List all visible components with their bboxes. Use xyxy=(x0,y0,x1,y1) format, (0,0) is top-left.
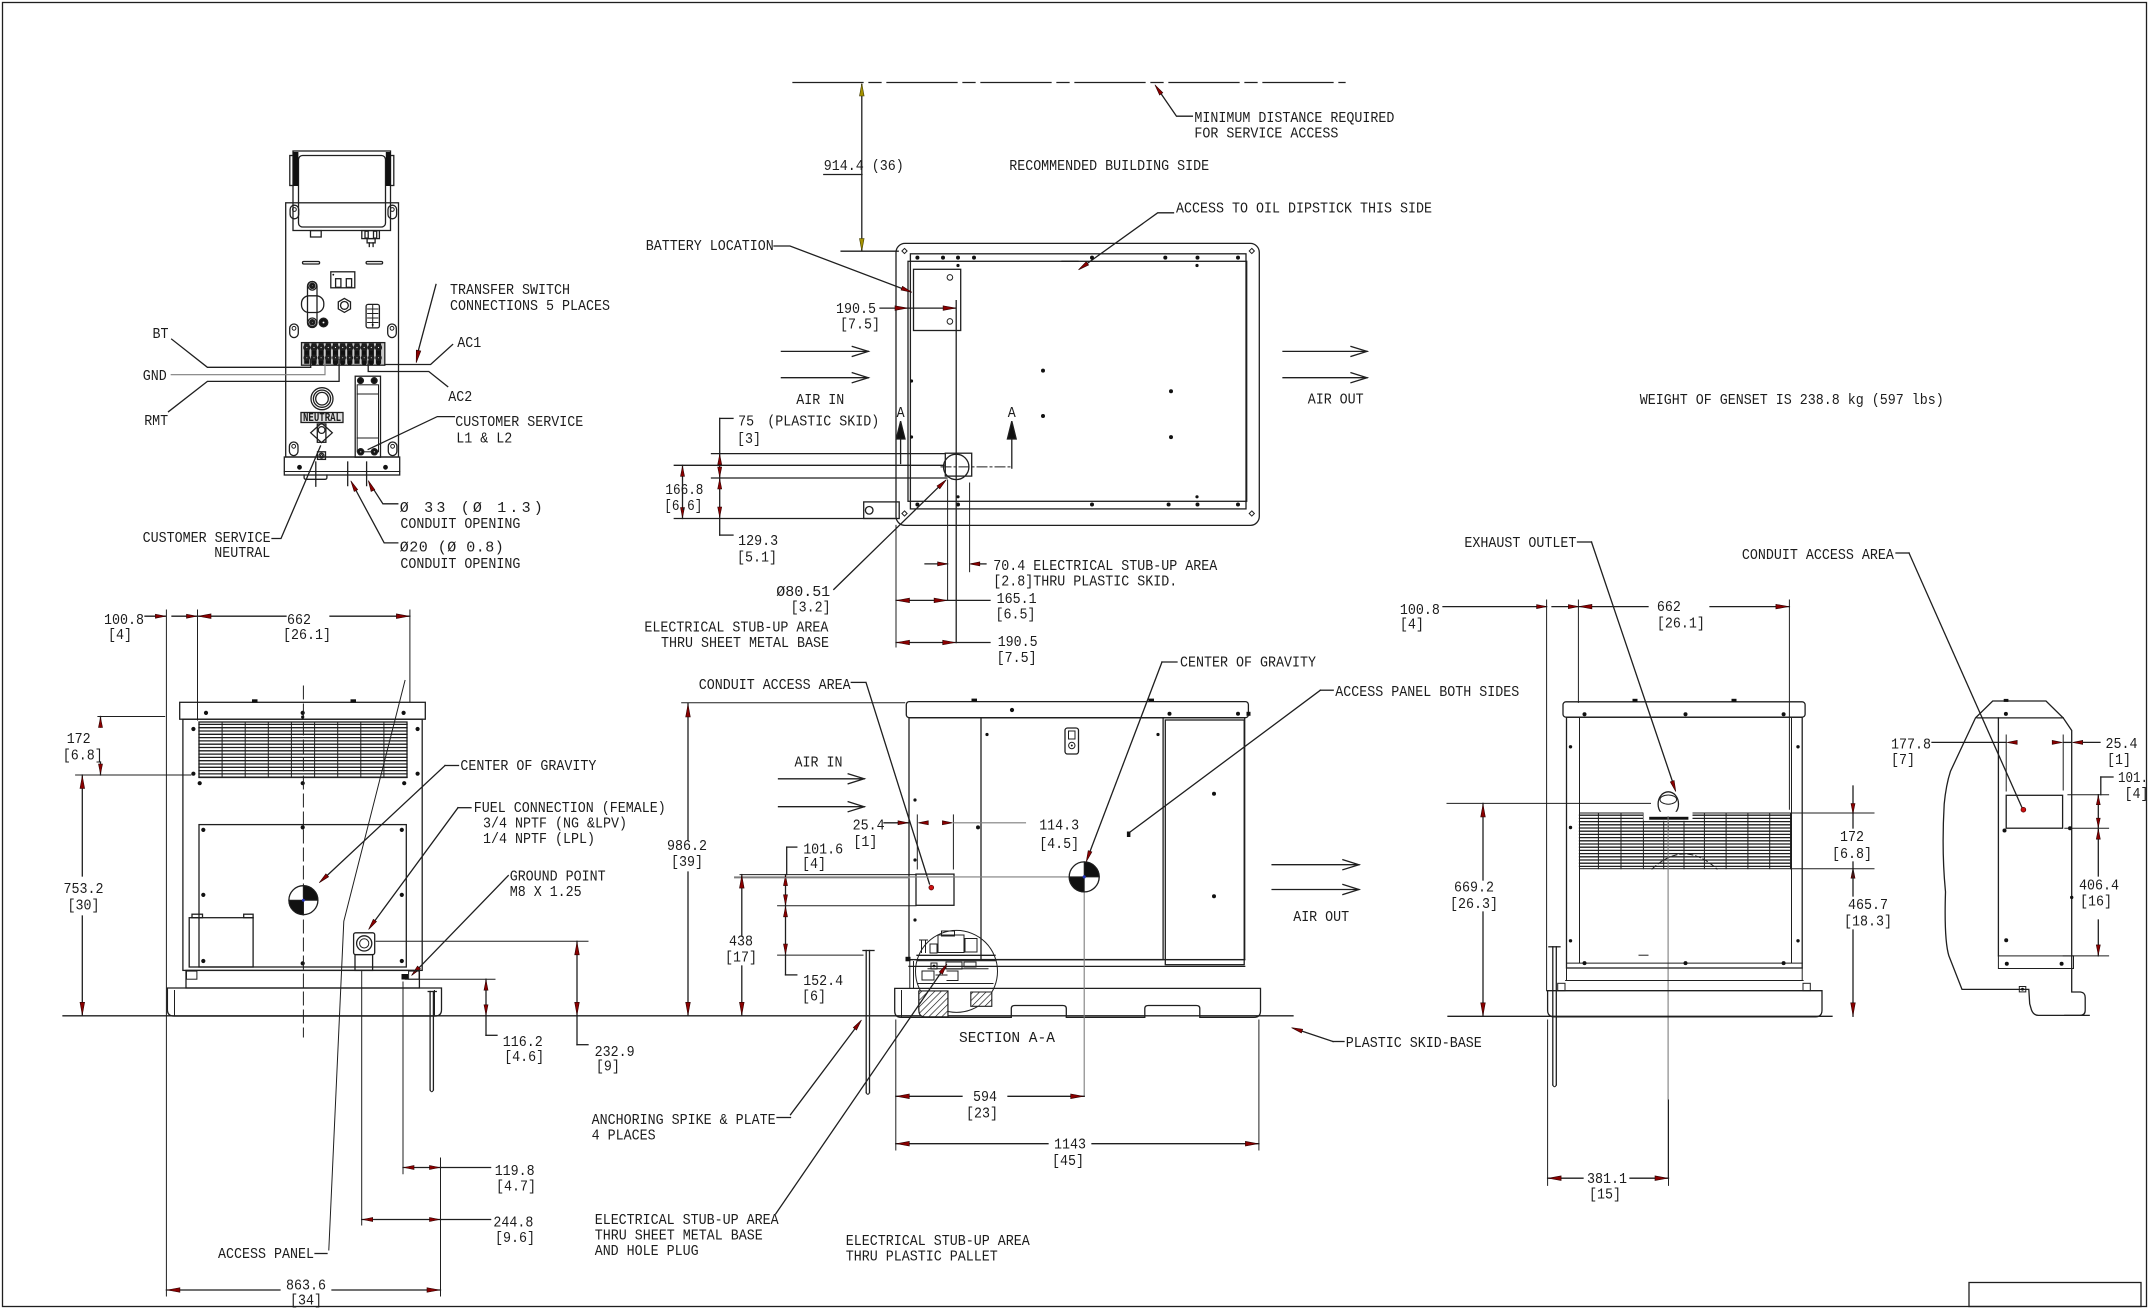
panel flange tab xyxy=(304,475,327,479)
svg-text:[7]: [7] xyxy=(1891,752,1915,769)
control panel: round connector xyxy=(319,318,328,327)
extension line body left (section) xyxy=(895,1020,897,1150)
dimension 152.4 [6] (section) xyxy=(785,906,787,955)
right view: bottom band xyxy=(1567,962,1803,964)
svg-text:AC2: AC2 xyxy=(448,389,472,406)
control panel: D-sub screw top xyxy=(308,282,317,291)
svg-text:119.8: 119.8 xyxy=(495,1163,535,1180)
left view: ground line xyxy=(63,1015,1293,1017)
dimension 1143 [45] xyxy=(896,1143,1048,1145)
left view: dimension 232.9 [9] xyxy=(576,941,578,1016)
svg-text:25.4: 25.4 xyxy=(2106,736,2138,753)
section A-A: plastic skid pallet xyxy=(895,988,1261,1017)
svg-text:172: 172 xyxy=(1840,829,1864,846)
svg-text:70.4 ELECTRICAL STUB-UP AREA: 70.4 ELECTRICAL STUB-UP AREA xyxy=(993,558,1217,575)
dimension 166.8 [6.6] xyxy=(682,465,684,518)
right view: exhaust gap in grille xyxy=(1644,812,1693,821)
svg-text:[4.7]: [4.7] xyxy=(496,1179,536,1196)
profile view: door bottom strip xyxy=(1998,956,2073,969)
right view: anchoring spike xyxy=(1549,946,1560,948)
customer service block L1 L2 xyxy=(355,376,380,457)
neutral lug lower stud xyxy=(318,452,326,460)
svg-text:[4]: [4] xyxy=(2125,786,2149,803)
control panel: hex stud xyxy=(338,298,350,312)
svg-text:THRU SHEET METAL BASE: THRU SHEET METAL BASE xyxy=(661,635,829,652)
left view: dimension 119.8 [4.7] xyxy=(403,1167,441,1169)
right view: ext skid-left xyxy=(1546,600,1548,991)
control panel: fuse holder box xyxy=(331,272,355,288)
svg-text:465.7: 465.7 xyxy=(1848,897,1888,914)
svg-text:[1]: [1] xyxy=(853,834,877,851)
right view: dimension 662 [26.1] xyxy=(1578,606,1648,608)
leader wire GND xyxy=(171,360,325,375)
profile view: screw dots xyxy=(2004,712,2008,716)
svg-text:[2.8]THRU PLASTIC SKID.: [2.8]THRU PLASTIC SKID. xyxy=(993,574,1177,591)
control panel: slot dash right xyxy=(366,262,383,265)
svg-text:1/4 NPTF (LPL): 1/4 NPTF (LPL) xyxy=(483,831,595,848)
stub-up hole rectangle (plan) xyxy=(945,453,971,476)
battery centerline extension xyxy=(955,301,957,643)
svg-text:[23]: [23] xyxy=(966,1106,998,1123)
svg-text:AIR IN: AIR IN xyxy=(795,755,843,772)
left view: battery box xyxy=(189,918,253,967)
neutral lug diamond xyxy=(311,423,333,443)
left view: dimension 863.6 [34] xyxy=(166,1289,280,1291)
right view: plastic skid xyxy=(1548,991,1822,1017)
genset left edge extension (plan) xyxy=(895,525,897,647)
profile view: conduit access rect xyxy=(2006,795,2062,828)
control panel: D-sub shell xyxy=(302,296,324,313)
leader anchoring spike xyxy=(777,1117,791,1119)
conduit opening tick 3 xyxy=(366,462,368,486)
svg-text:438: 438 xyxy=(729,934,753,951)
genset plan view: sheet metal rim inner xyxy=(908,261,1247,501)
left view: ground bolt xyxy=(402,974,409,980)
right view: exhaust outlet xyxy=(1658,792,1678,816)
svg-text:A: A xyxy=(1008,405,1016,422)
right view: dimension 465.7 [18.3] xyxy=(1852,869,1854,896)
left view: extension line ground-point x xyxy=(402,982,404,1174)
leader conduit opening 20 xyxy=(353,485,398,543)
svg-text:1143: 1143 xyxy=(1054,1137,1086,1154)
svg-text:[9]: [9] xyxy=(596,1059,620,1076)
profile view: top tab xyxy=(2004,699,2009,702)
svg-text:[18.3]: [18.3] xyxy=(1844,914,1892,931)
svg-text:M8 X 1.25: M8 X 1.25 xyxy=(510,884,582,901)
plan interior fastener dots xyxy=(1041,369,1045,373)
skid tab bottom-left (plan) xyxy=(864,502,900,519)
control panel: mounting slot top-right xyxy=(388,205,397,219)
NEUTRAL label plate xyxy=(301,413,343,423)
right view: muffler dashed arc xyxy=(1652,854,1717,869)
svg-text:[3.2]: [3.2] xyxy=(791,600,831,617)
svg-text:CONDUIT OPENING: CONDUIT OPENING xyxy=(400,516,520,533)
svg-text:THRU PLASTIC PALLET: THRU PLASTIC PALLET xyxy=(846,1249,998,1266)
control panel: slot dash left xyxy=(303,262,320,265)
svg-text:[26.3]: [26.3] xyxy=(1450,896,1498,913)
control panel: display left mount bar xyxy=(290,156,293,186)
leader wire RMT xyxy=(169,360,340,412)
svg-text:[39]: [39] xyxy=(671,854,703,871)
section A-A: stub-up hatched area right xyxy=(971,992,992,1006)
conduit opening tick 2 xyxy=(347,462,349,486)
svg-text:AIR IN: AIR IN xyxy=(796,392,844,409)
svg-text:166.8: 166.8 xyxy=(665,482,703,499)
leader plastic skid-base xyxy=(1296,1029,1334,1042)
section A-A: center of gravity symbol xyxy=(735,876,1070,878)
svg-text:ELECTRICAL STUB-UP AREA: ELECTRICAL STUB-UP AREA xyxy=(644,620,828,637)
leader fuel connection xyxy=(458,807,471,809)
leader customer service L1 L2 xyxy=(368,417,454,450)
left view: grille side screws xyxy=(191,727,195,731)
leader transfer switch xyxy=(418,284,436,352)
left view: cap rivets xyxy=(204,711,208,715)
svg-text:(PLASTIC SKID): (PLASTIC SKID) xyxy=(767,413,879,430)
section cap rivets xyxy=(1010,708,1014,712)
leader center of gravity (section) xyxy=(1088,662,1162,857)
left view: extension line 116.2 xyxy=(405,978,495,980)
leader minimum distance xyxy=(1158,89,1193,117)
control panel: mounting slot mid-left xyxy=(290,324,299,338)
svg-text:[16]: [16] xyxy=(2080,894,2112,911)
svg-text:FUEL CONNECTION (FEMALE): FUEL CONNECTION (FEMALE) xyxy=(474,800,666,817)
genset plan view: skid corner screws xyxy=(902,248,907,253)
profile view: dim 101.6 lines xyxy=(2068,794,2109,796)
leader exhaust outlet xyxy=(1592,542,1674,785)
oil dipstick mark on rim xyxy=(1062,260,1078,262)
control panel: tab below display left xyxy=(311,231,322,237)
svg-text:[4]: [4] xyxy=(1400,617,1424,634)
left view: screws below grille xyxy=(198,781,202,785)
left view: extension line right 119.8 xyxy=(440,1158,442,1296)
svg-text:A: A xyxy=(897,405,905,422)
svg-text:594: 594 xyxy=(973,1089,997,1106)
leader conduit access area to section view xyxy=(866,682,930,884)
svg-text:[30]: [30] xyxy=(68,898,100,915)
skid channel line 2 (center) xyxy=(674,464,944,466)
svg-text:[6.6]: [6.6] xyxy=(664,498,702,515)
svg-text:PLASTIC SKID-BASE: PLASTIC SKID-BASE xyxy=(1346,1035,1482,1052)
svg-text:[45]: [45] xyxy=(1052,1153,1084,1170)
left view: extension line grille left xyxy=(197,610,199,720)
section A-A: anchor bracket left xyxy=(906,957,911,962)
svg-text:[9.6]: [9.6] xyxy=(495,1230,535,1247)
svg-text:ANCHORING SPIKE & PLATE: ANCHORING SPIKE & PLATE xyxy=(592,1112,776,1129)
svg-text:ACCESS PANEL BOTH SIDES: ACCESS PANEL BOTH SIDES xyxy=(1335,684,1519,701)
section A-A: conduit access rect xyxy=(916,874,954,905)
dimension 190.5 [7.5] lower xyxy=(896,642,956,644)
section A-A: control door xyxy=(981,718,1163,960)
left view: cabinet top cap xyxy=(180,702,426,719)
svg-text:381.1: 381.1 xyxy=(1587,1171,1627,1188)
left view: dimension 116.2 [4.6] xyxy=(485,979,487,1016)
svg-text:177.8: 177.8 xyxy=(1891,737,1931,754)
right view: radiator grille xyxy=(1580,814,1791,816)
right view: 669.2 top extension line xyxy=(1447,802,1651,804)
leader wire AC2 xyxy=(368,361,448,387)
svg-text:AIR OUT: AIR OUT xyxy=(1293,909,1349,926)
svg-text:FOR SERVICE ACCESS: FOR SERVICE ACCESS xyxy=(1194,126,1338,143)
svg-text:914.4 (36): 914.4 (36) xyxy=(824,158,904,175)
section A-A: panel dots xyxy=(1212,792,1216,796)
svg-text:THRU SHEET METAL BASE: THRU SHEET METAL BASE xyxy=(595,1228,763,1245)
svg-text:GND: GND xyxy=(143,368,167,385)
air in arrows (plan) xyxy=(852,346,868,356)
svg-text:190.5: 190.5 xyxy=(836,301,876,318)
leader wire AC1 xyxy=(385,345,453,365)
section A-A: conduit access red dot xyxy=(929,885,934,890)
svg-text:ACCESS TO OIL DIPSTICK THIS SI: ACCESS TO OIL DIPSTICK THIS SIDE xyxy=(1176,201,1432,218)
control panel: display right mount bar xyxy=(390,156,393,186)
svg-text:CONDUIT ACCESS AREA: CONDUIT ACCESS AREA xyxy=(699,677,851,694)
leader customer service neutral xyxy=(272,446,321,539)
dimension 165.1 [6.5] xyxy=(896,599,948,601)
svg-text:[4.5]: [4.5] xyxy=(1039,836,1079,853)
svg-text:AND HOLE PLUG: AND HOLE PLUG xyxy=(595,1243,699,1260)
svg-text:MINIMUM DISTANCE REQUIRED: MINIMUM DISTANCE REQUIRED xyxy=(1194,110,1394,127)
control panel: mounting slot bottom-left xyxy=(289,442,298,456)
svg-text:ACCESS PANEL: ACCESS PANEL xyxy=(218,1246,314,1263)
svg-text:[17]: [17] xyxy=(725,950,757,967)
svg-text:TRANSFER SWITCH: TRANSFER SWITCH xyxy=(450,282,570,299)
right view: ground line xyxy=(1448,1015,1832,1017)
neutral lug body xyxy=(317,424,326,442)
svg-text:[6]: [6] xyxy=(802,989,826,1006)
leader battery location xyxy=(774,246,906,290)
extension line genset top for 914.4 xyxy=(841,250,898,252)
left view: extension line fuel x xyxy=(361,970,363,1225)
right view: side dots xyxy=(1569,745,1572,748)
electrical stub-up hole circle dia 80.51 xyxy=(944,454,969,479)
control panel: bottom flange xyxy=(284,457,399,475)
svg-text:AC1: AC1 xyxy=(457,335,481,352)
left view: vertical centerline dashed xyxy=(302,686,304,1037)
right view: dimension 381.1 [15] xyxy=(1547,1020,1549,1185)
svg-text:CENTER OF GRAVITY: CENTER OF GRAVITY xyxy=(1180,655,1316,672)
svg-text:[26.1]: [26.1] xyxy=(1657,616,1705,633)
leader electrical stub-up sheet metal xyxy=(776,968,945,1214)
control panel: mounting slot bottom-right xyxy=(388,442,397,456)
svg-text:RMT: RMT xyxy=(144,413,168,430)
svg-text:CUSTOMER SERVICE: CUSTOMER SERVICE xyxy=(455,414,583,431)
svg-text:WEIGHT OF GENSET IS 238.8 kg (: WEIGHT OF GENSET IS 238.8 kg (597 lbs) xyxy=(1640,392,1944,409)
986.2 top extension line xyxy=(682,702,905,704)
dimension 101.6 [4] (section) xyxy=(787,846,797,848)
left view: access panel screws xyxy=(201,828,205,832)
svg-text:[4]: [4] xyxy=(802,856,826,873)
section A-A: door latch xyxy=(1065,728,1079,754)
svg-text:172: 172 xyxy=(67,731,91,748)
leader dia 80.51 xyxy=(834,482,944,590)
profile view: flange bolt xyxy=(2019,987,2026,992)
svg-text:[7.5]: [7.5] xyxy=(997,650,1037,667)
profile view: top cap line xyxy=(1977,717,2063,719)
left view: dimension 753.2 [30] xyxy=(81,775,83,876)
svg-text:[7.5]: [7.5] xyxy=(840,317,880,334)
svg-text:165.1: 165.1 xyxy=(997,591,1037,608)
plan rim fastener dots bottom xyxy=(915,503,919,507)
svg-text:114.3: 114.3 xyxy=(1039,818,1079,835)
terminal block TB1 xyxy=(302,343,385,366)
left view: cabinet body xyxy=(183,719,422,970)
profile view: dimension 25.4 [1] xyxy=(2063,741,2072,743)
section A-A: balloon interior parts xyxy=(938,935,964,953)
right view: dimension 172 [6.8] xyxy=(1791,812,1874,814)
left view: fuel connection fitting xyxy=(354,933,375,955)
extension line skid right (section) xyxy=(1258,1020,1260,1150)
svg-text:4 PLACES: 4 PLACES xyxy=(592,1128,656,1145)
leader conduit access area right xyxy=(1909,553,2022,808)
profile view: dimension 406.4 [16] xyxy=(2097,828,2099,876)
svg-text:669.2: 669.2 xyxy=(1454,880,1494,897)
section A-A: right access panel xyxy=(1165,720,1244,965)
control panel: mounting slot top-left xyxy=(290,205,299,219)
control panel: D-sub screw bottom xyxy=(308,318,317,327)
svg-text:152.4: 152.4 xyxy=(803,973,843,990)
svg-text:L1 & L2: L1 & L2 xyxy=(456,431,512,448)
svg-text:[26.1]: [26.1] xyxy=(283,627,331,644)
battery box (plan) xyxy=(914,269,961,330)
plan rim fastener dots top xyxy=(915,256,919,260)
left view: dimension 244.8 [9.6] xyxy=(362,1219,441,1221)
svg-text:244.8: 244.8 xyxy=(493,1215,533,1232)
dimension 986.2 [39] xyxy=(687,703,689,840)
dimension 70.4 stub-up xyxy=(969,483,971,572)
leader wire BT xyxy=(172,339,311,367)
dimension 114.3 [4.5] (section) xyxy=(953,822,1025,824)
section A-A: cabinet body xyxy=(909,718,1245,960)
svg-text:CONNECTIONS 5 PLACES: CONNECTIONS 5 PLACES xyxy=(450,298,610,315)
svg-text:190.5: 190.5 xyxy=(998,634,1038,651)
right view: dimension 669.2 [26.3] xyxy=(1482,803,1484,880)
control panel: DIP switch block xyxy=(366,304,379,328)
section A-A: bottom band lines xyxy=(909,959,1245,961)
skid channel line 1 (75 top) xyxy=(712,453,946,455)
air out arrows (plan) xyxy=(1351,346,1367,356)
svg-text:Ø80.51: Ø80.51 xyxy=(776,584,830,601)
svg-text:NEUTRAL: NEUTRAL xyxy=(214,545,270,562)
section A-A: top cap xyxy=(906,702,1248,718)
left view: extension line 232.9 xyxy=(376,940,588,942)
dimension 594 [23] xyxy=(896,1095,962,1097)
right view: top cap xyxy=(1563,702,1805,717)
svg-text:[15]: [15] xyxy=(1589,1187,1621,1204)
right view: exhaust centerline xyxy=(1667,817,1669,1179)
control panel: D-sub connector body xyxy=(308,282,318,328)
svg-text:986.2: 986.2 xyxy=(667,838,707,855)
svg-text:[4.6]: [4.6] xyxy=(504,1049,544,1066)
svg-text:GROUND POINT: GROUND POINT xyxy=(510,869,606,886)
svg-text:129.3: 129.3 xyxy=(738,533,778,550)
svg-text:RECOMMENDED BUILDING SIDE: RECOMMENDED BUILDING SIDE xyxy=(1009,158,1209,175)
right view: ext grille-left xyxy=(1577,600,1579,702)
svg-text:SECTION A-A: SECTION A-A xyxy=(959,1030,1055,1047)
svg-text:[1]: [1] xyxy=(2107,752,2131,769)
left view: dimension 662 [26.1] xyxy=(198,615,287,617)
neutral grommet rings xyxy=(311,388,333,410)
section A-A: anchoring spike xyxy=(863,950,874,952)
svg-text:3/4 NPTF (NG &LPV): 3/4 NPTF (NG &LPV) xyxy=(483,816,627,833)
svg-text:25.4: 25.4 xyxy=(853,818,885,835)
stub hole centerline extension xyxy=(947,480,949,600)
svg-text:BT: BT xyxy=(153,326,169,343)
control panel: mounting slot mid-right xyxy=(388,324,397,338)
panel flange rivets xyxy=(297,465,302,470)
left view: anchoring spike xyxy=(428,991,436,993)
air out arrows (section) xyxy=(1272,864,1359,866)
profile view: baseline under foot xyxy=(2065,1014,2089,1016)
genset plan view: sheet metal rim outer xyxy=(910,254,1246,509)
leader ground point xyxy=(415,876,509,973)
profile view: door edge xyxy=(1997,718,1999,956)
genset plan view: outer skid outline xyxy=(896,243,1259,525)
svg-text:[5.1]: [5.1] xyxy=(737,550,777,567)
svg-text:[6.5]: [6.5] xyxy=(996,607,1036,624)
svg-text:75: 75 xyxy=(738,413,754,430)
left view: radiator grille xyxy=(199,723,407,725)
svg-text:[6.8]: [6.8] xyxy=(63,748,103,765)
section A-A: detail balloon circle xyxy=(916,930,998,1012)
profile view: body outline xyxy=(1943,701,2085,1015)
svg-text:EXHAUST OUTLET: EXHAUST OUTLET xyxy=(1464,535,1576,552)
svg-text:662: 662 xyxy=(1657,599,1681,616)
right view: inner panel lines xyxy=(1579,717,1581,963)
stub-up centerline dash-dot xyxy=(941,466,1013,468)
svg-text:ELECTRICAL STUB-UP AREA: ELECTRICAL STUB-UP AREA xyxy=(595,1212,779,1229)
svg-text:CENTER OF GRAVITY: CENTER OF GRAVITY xyxy=(460,758,596,775)
control panel: display screen xyxy=(299,156,386,228)
left view: center of gravity symbol xyxy=(289,886,318,915)
left view: plastic skid xyxy=(167,988,441,1016)
conduit opening tick 1 xyxy=(315,462,317,486)
right view: ext grille-right xyxy=(1788,600,1790,809)
control panel: main plate outline xyxy=(286,203,399,457)
svg-text:AIR OUT: AIR OUT xyxy=(1308,392,1364,409)
skid channel line 3 (75 bottom) xyxy=(712,477,948,479)
left view: access panel xyxy=(199,825,406,967)
left view: dimension 172 [6.8] xyxy=(98,716,165,718)
left view: cap top ticks xyxy=(252,699,258,702)
leader access panel xyxy=(329,681,405,1251)
left view: base frame xyxy=(186,970,419,988)
svg-text:[34]: [34] xyxy=(290,1293,322,1309)
svg-text:406.4: 406.4 xyxy=(2079,878,2119,895)
leader access panel both sides xyxy=(1129,690,1321,833)
control panel: connector below display right xyxy=(362,231,380,239)
leader center of gravity (left view) xyxy=(445,765,459,767)
svg-text:Ø20 (Ø 0.8): Ø20 (Ø 0.8) xyxy=(400,540,504,557)
svg-text:[4]: [4] xyxy=(108,627,132,644)
section ext lines horizontal xyxy=(740,874,916,876)
service clearance phantom line xyxy=(793,82,1345,84)
title block box (empty) xyxy=(1969,1283,2141,1307)
dimension 438 [17] (section) xyxy=(741,875,743,936)
svg-text:CONDUIT ACCESS AREA: CONDUIT ACCESS AREA xyxy=(1742,547,1894,564)
svg-text:[3]: [3] xyxy=(737,431,761,448)
leader conduit opening 33 xyxy=(371,485,398,504)
section cap ticks xyxy=(972,699,978,702)
svg-text:BATTERY LOCATION: BATTERY LOCATION xyxy=(646,238,774,255)
skid tab line 4 extension xyxy=(674,518,896,520)
section A-A: stub-up hatched area left xyxy=(919,991,948,1017)
profile view: conduit access red dot xyxy=(2021,807,2026,812)
leader access to oil dipstick xyxy=(1083,213,1174,267)
left view: extension line grille right xyxy=(409,610,411,702)
svg-text:ELECTRICAL STUB-UP AREA: ELECTRICAL STUB-UP AREA xyxy=(846,1233,1030,1250)
svg-text:[6.8]: [6.8] xyxy=(1832,846,1872,863)
svg-text:101.: 101. xyxy=(2118,770,2148,787)
left view: extension line skid left xyxy=(165,610,167,1296)
